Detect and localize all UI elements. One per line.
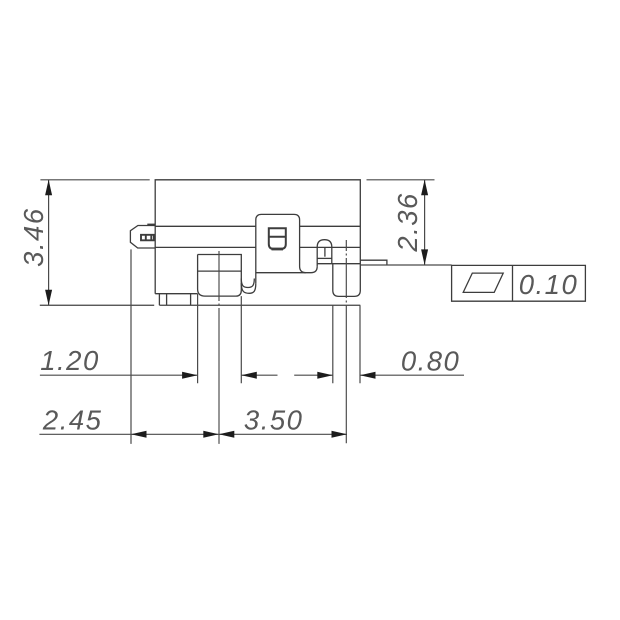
dim 2.36 extension top xyxy=(367,179,435,181)
arrow 2.45 left xyxy=(131,431,147,438)
arrow 2.36 up xyxy=(421,180,428,196)
left contact block xyxy=(198,255,242,297)
leader line to frame xyxy=(360,264,451,266)
tab inner contact xyxy=(269,228,286,249)
dome divider xyxy=(324,248,326,257)
arrow 3.50 right xyxy=(332,431,348,438)
row1 dim line 1.20 xyxy=(40,374,278,376)
arrow 3.46 down xyxy=(45,290,52,306)
right inner line xyxy=(317,263,360,265)
band top line xyxy=(155,225,360,227)
svg-text:2.45: 2.45 xyxy=(42,405,103,436)
arrow 1.20 right xyxy=(241,372,256,379)
arrow 0.80 right xyxy=(360,372,376,379)
dome contact xyxy=(317,240,332,267)
left foot legs xyxy=(159,294,190,306)
left plug hexagon xyxy=(130,226,155,249)
block centerline xyxy=(218,251,220,444)
svg-text:3.46: 3.46 xyxy=(18,207,49,267)
block inner line xyxy=(198,270,242,272)
arrow 0.80 left xyxy=(317,372,333,379)
arrow 3.46 up xyxy=(45,180,52,196)
feature control frame xyxy=(452,265,586,301)
dim 3.46 line xyxy=(48,180,50,305)
body bottom-left edge xyxy=(155,293,197,295)
connector body outline xyxy=(155,180,360,294)
svg-text:3.50: 3.50 xyxy=(244,405,304,436)
dome base arc xyxy=(311,266,317,272)
flatness symbol parallelogram xyxy=(463,273,503,292)
inner U fold xyxy=(241,279,254,288)
row1 extension lines xyxy=(198,294,360,384)
seating plane line xyxy=(40,304,361,306)
dim 3.46 extension top xyxy=(40,179,149,181)
right pin J-lead xyxy=(333,264,361,297)
outer U fold xyxy=(241,283,256,293)
lower body line xyxy=(256,272,311,274)
svg-text:0.80: 0.80 xyxy=(401,346,461,377)
dome base line xyxy=(317,257,332,259)
row1 dim line 0.80 xyxy=(294,374,464,376)
tick mark xyxy=(147,224,155,226)
right lead tab xyxy=(360,260,387,265)
svg-text:1.20: 1.20 xyxy=(40,345,100,376)
svg-text:2.36: 2.36 xyxy=(392,192,423,253)
arrow 1.20 left xyxy=(182,372,198,379)
dim 2.36 line xyxy=(424,180,426,265)
central tab xyxy=(256,214,306,283)
band bottom line xyxy=(155,246,360,248)
arrow 2.45 right xyxy=(203,431,219,438)
pin centerline xyxy=(345,240,347,443)
arrow 2.36 down xyxy=(421,249,428,265)
arrow 3.50 left xyxy=(219,431,235,438)
svg-text:0.10: 0.10 xyxy=(519,269,579,300)
row2 dim line xyxy=(39,433,347,435)
row2 extension 2.45 xyxy=(130,249,132,444)
plug window xyxy=(141,235,154,241)
